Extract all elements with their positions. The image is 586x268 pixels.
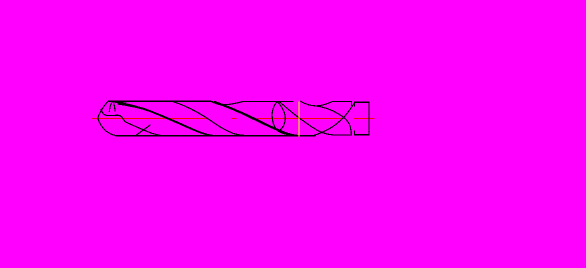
flute trailing edge D (descending to shank) — [315, 106, 351, 134]
flute helix edge H1c — [174, 102, 245, 135]
flute helix edge H1b — [118, 104, 215, 136]
right stub top — [351, 101, 353, 105]
flute runout ellipse tail — [279, 131, 293, 135]
wire top silhouette (right) — [333, 100, 352, 102]
flute helix edge R1 — [279, 101, 334, 135]
tip ear right edge — [114, 104, 115, 111]
flute dip in top silhouette — [211, 101, 244, 105]
drill tip flank and nose — [98, 102, 115, 136]
centerline red dash 4 (end) — [354, 118, 375, 119]
shank end rectangle — [355, 102, 370, 135]
centerline red dash 2 (short) — [232, 118, 237, 119]
right stub bottom — [351, 131, 353, 135]
flute helix braid strand B — [215, 102, 298, 136]
wire top silhouette (left of flute dip) — [108, 100, 211, 102]
flute dip in top silhouette (right) — [301, 101, 333, 106]
tip flute pocket and lip edge — [101, 109, 162, 135]
wire top silhouette (middle) — [244, 100, 294, 102]
flute leading edge S (rising to shank) — [315, 103, 355, 135]
flute runout narrow ellipse left arc — [272, 102, 278, 132]
centerline red dash 3 (long) — [257, 118, 343, 119]
centerline red dash 1 (long) — [92, 118, 207, 119]
tip heel edge — [136, 125, 151, 136]
flute helix edge H1a — [110, 101, 214, 136]
flute helix braid strand A — [211, 101, 295, 135]
wire bottom silhouette (left) — [115, 135, 315, 137]
flute runout narrow ellipse right arc — [277, 102, 285, 132]
tip margin bar — [109, 101, 126, 102]
marker line (yellow, vertical) — [299, 102, 300, 137]
tip ear left edge — [109, 103, 111, 112]
wire bottom silhouette (right) — [334, 134, 352, 136]
